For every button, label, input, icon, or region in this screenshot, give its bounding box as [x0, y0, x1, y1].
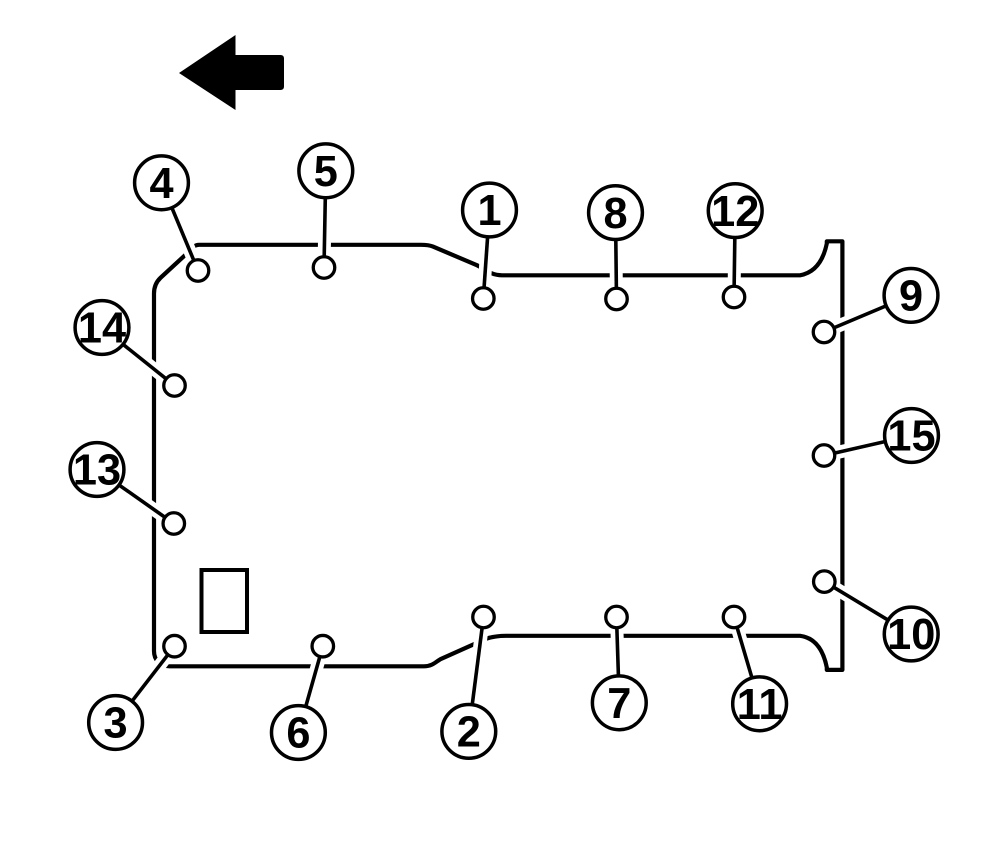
leader line 5 [324, 171, 326, 268]
svg-text:9: 9 [899, 273, 923, 321]
bolt hole 1 [473, 288, 495, 310]
callout 15 [885, 409, 939, 463]
svg-text:13: 13 [73, 447, 121, 495]
direction arrow (front of engine) [179, 35, 284, 110]
callout 6 [272, 706, 326, 760]
leader line 12 [734, 211, 735, 297]
leader line 2 [469, 617, 484, 731]
bolt hole 13 [163, 513, 185, 535]
leader line 14 [102, 328, 175, 386]
leader line 7 [617, 617, 620, 703]
bolt hole 11 [723, 606, 745, 628]
svg-text:15: 15 [887, 413, 935, 461]
callout 12 [708, 184, 762, 238]
callout 8 [589, 186, 643, 240]
callout 10 [884, 607, 938, 661]
svg-text:7: 7 [607, 680, 631, 728]
svg-text:5: 5 [314, 148, 338, 196]
leader line 9 [824, 295, 911, 332]
svg-text:6: 6 [286, 710, 310, 758]
svg-text:2: 2 [457, 709, 481, 757]
svg-text:3: 3 [104, 700, 128, 748]
svg-text:11: 11 [737, 681, 783, 729]
bolt hole 8 [606, 288, 628, 310]
leader line 8 [616, 213, 617, 299]
svg-text:8: 8 [603, 190, 627, 238]
callout 9 [884, 269, 938, 323]
leader line 13 [97, 470, 174, 524]
leader line 11 [734, 617, 760, 704]
bolt hole 6 [312, 635, 334, 657]
bolt hole 15 [813, 445, 835, 467]
bolt hole 3 [164, 635, 186, 657]
callout 4 [135, 156, 189, 210]
bolt hole 7 [606, 606, 628, 628]
callout 5 [299, 144, 353, 198]
bolt hole 12 [723, 286, 745, 308]
callout 2 [442, 705, 496, 759]
svg-text:12: 12 [711, 188, 759, 236]
callout 14 [75, 301, 129, 355]
svg-text:1: 1 [477, 187, 501, 235]
callout 11 [733, 677, 787, 731]
oil pan outline [154, 241, 842, 670]
svg-text:10: 10 [887, 611, 935, 659]
drain plug rectangle [202, 570, 248, 632]
bolt hole 4 [187, 260, 209, 282]
bolt hole 5 [313, 257, 335, 279]
leader line 3 [116, 646, 175, 722]
leader line 1 [483, 210, 489, 299]
bolt hole 10 [814, 571, 836, 593]
bolt hole 9 [813, 321, 835, 343]
leader line 10 [824, 582, 911, 634]
callout 13 [70, 443, 124, 497]
leader line 15 [824, 436, 912, 456]
callout 7 [592, 676, 646, 730]
leader line 6 [298, 646, 322, 732]
leader line 4 [162, 183, 199, 271]
bolt hole 14 [164, 375, 186, 397]
callout 1 [463, 183, 517, 237]
svg-text:4: 4 [149, 160, 173, 208]
svg-text:14: 14 [78, 305, 126, 353]
bolt hole 2 [473, 606, 495, 628]
callout 3 [89, 696, 143, 750]
